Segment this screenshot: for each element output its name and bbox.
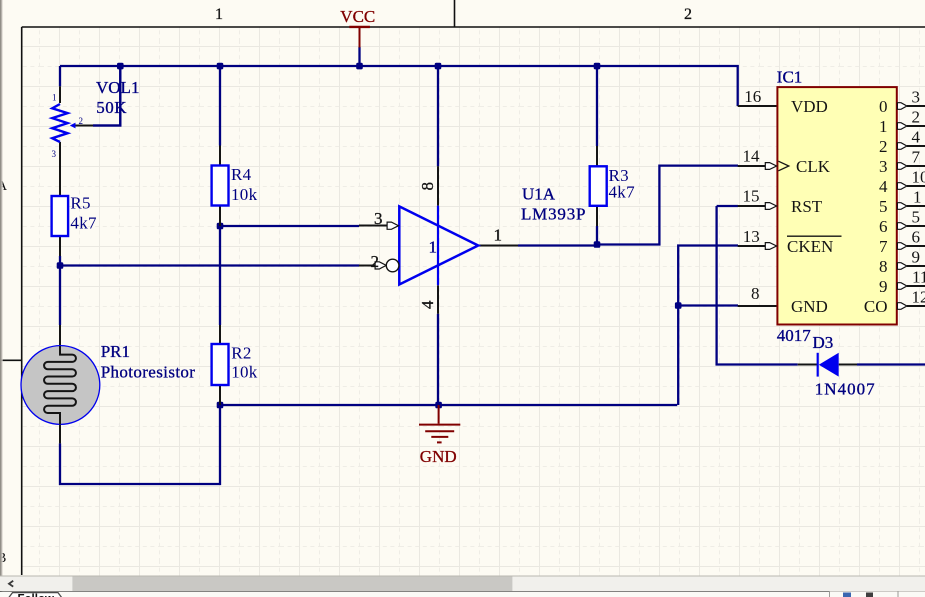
svg-text:16: 16 bbox=[744, 87, 761, 106]
svg-text:7: 7 bbox=[879, 237, 888, 256]
svg-text:GND: GND bbox=[791, 297, 828, 316]
svg-text:8: 8 bbox=[751, 284, 760, 303]
svg-text:CLK: CLK bbox=[796, 157, 831, 176]
svg-text:9: 9 bbox=[912, 248, 921, 267]
svg-text:2: 2 bbox=[371, 252, 380, 271]
svg-text:3: 3 bbox=[879, 157, 888, 176]
svg-text:3: 3 bbox=[912, 88, 921, 107]
svg-text:1: 1 bbox=[52, 92, 57, 102]
svg-text:6: 6 bbox=[912, 228, 921, 247]
svg-text:2: 2 bbox=[879, 137, 888, 156]
svg-text:R2: R2 bbox=[231, 343, 251, 362]
svg-text:12: 12 bbox=[912, 288, 925, 307]
svg-text:8: 8 bbox=[879, 257, 888, 276]
svg-text:7: 7 bbox=[912, 148, 921, 167]
svg-text:6: 6 bbox=[879, 217, 888, 236]
svg-text:IC1: IC1 bbox=[777, 68, 803, 87]
svg-text:R4: R4 bbox=[231, 165, 252, 184]
svg-text:50K: 50K bbox=[96, 98, 127, 117]
svg-text:3: 3 bbox=[52, 149, 57, 159]
svg-text:11: 11 bbox=[912, 268, 925, 287]
svg-text:4: 4 bbox=[912, 128, 921, 147]
svg-text:2: 2 bbox=[79, 116, 84, 126]
svg-text:1: 1 bbox=[494, 226, 503, 245]
svg-text:R5: R5 bbox=[70, 193, 90, 212]
svg-text:4k7: 4k7 bbox=[70, 213, 97, 232]
svg-text:1: 1 bbox=[429, 238, 438, 257]
svg-text:4k7: 4k7 bbox=[609, 183, 636, 202]
svg-text:0: 0 bbox=[879, 97, 888, 116]
svg-text:CKEN: CKEN bbox=[787, 237, 833, 256]
svg-text:Follow: Follow bbox=[18, 594, 54, 597]
svg-text:10k: 10k bbox=[231, 185, 258, 204]
svg-text:2: 2 bbox=[912, 108, 921, 127]
svg-text:U1A: U1A bbox=[522, 185, 556, 204]
svg-text:D3: D3 bbox=[813, 333, 834, 352]
svg-text:Photoresistor: Photoresistor bbox=[101, 362, 196, 381]
svg-text:1: 1 bbox=[879, 117, 888, 136]
svg-text:4: 4 bbox=[418, 300, 437, 309]
svg-text:5: 5 bbox=[879, 197, 888, 216]
svg-text:1N4007: 1N4007 bbox=[815, 380, 876, 399]
svg-text:VDD: VDD bbox=[791, 97, 828, 116]
svg-text:3: 3 bbox=[374, 209, 383, 228]
svg-text:1: 1 bbox=[913, 188, 922, 207]
svg-text:LM393P: LM393P bbox=[521, 204, 586, 223]
svg-text:13: 13 bbox=[743, 227, 760, 246]
svg-text:14: 14 bbox=[743, 146, 761, 165]
svg-text:GND: GND bbox=[420, 447, 457, 466]
svg-text:RST: RST bbox=[791, 197, 823, 216]
svg-text:4: 4 bbox=[879, 177, 888, 196]
svg-text:5: 5 bbox=[912, 208, 921, 227]
svg-text:8: 8 bbox=[418, 182, 437, 191]
svg-text:CO: CO bbox=[864, 297, 888, 316]
svg-text:1: 1 bbox=[215, 6, 223, 23]
svg-text:9: 9 bbox=[879, 277, 888, 296]
svg-text:2: 2 bbox=[684, 6, 692, 23]
svg-text:10k: 10k bbox=[231, 363, 258, 382]
svg-text:10: 10 bbox=[912, 168, 925, 187]
svg-text:PR1: PR1 bbox=[101, 342, 130, 361]
svg-text:VOL1: VOL1 bbox=[96, 78, 139, 97]
svg-text:15: 15 bbox=[743, 186, 760, 205]
svg-text:4017: 4017 bbox=[777, 326, 812, 345]
svg-text:VCC: VCC bbox=[340, 7, 375, 26]
